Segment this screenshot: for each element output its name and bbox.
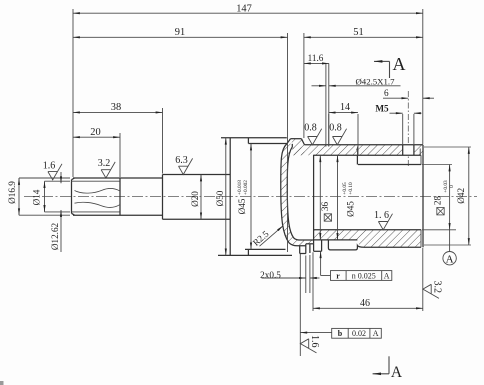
dimension dia36 boxed (320, 155, 331, 240)
svg-text:0.8: 0.8 (329, 123, 342, 134)
worm crest top line (73, 177, 163, 179)
tube bore 28 bottom line (314, 229, 421, 231)
roughness 1.6 rotated datum face (300, 335, 320, 353)
dimension 14 (329, 102, 358, 155)
worm root top line (72, 180, 121, 182)
extension line datum face below (299, 254, 301, 356)
worm shaft left end face (72, 178, 75, 215)
dimension 51 (304, 27, 423, 38)
flange rim top hatched (287, 139, 304, 156)
dimension 20 (73, 127, 120, 138)
dia50 disk top line with extension (221, 137, 287, 139)
flange bell wall hatched band (281, 144, 314, 246)
svg-text:Ø12.62: Ø12.62 (50, 222, 60, 250)
svg-text:3.2: 3.2 (98, 158, 111, 169)
svg-text:Ø20: Ø20 (190, 191, 200, 207)
boss tab bottom (328, 240, 364, 250)
dia50 disk left face (229, 138, 231, 256)
svg-text:36: 36 (320, 202, 330, 212)
svg-text:11.6: 11.6 (308, 53, 324, 63)
roughness 0.8 second (329, 123, 346, 145)
dimension dia45 bore with tolerance (338, 155, 356, 240)
section arrow A top (374, 54, 406, 78)
svg-text:A: A (384, 271, 390, 280)
roughness 1.6 bore (374, 210, 393, 230)
tube bore 28 top line (358, 164, 421, 166)
tube bore 45 top line (314, 154, 421, 156)
dimension dia16.9 (7, 178, 70, 215)
extension line bore opening for dim 46 (312, 252, 314, 311)
part right face (422, 145, 424, 248)
svg-text:0: 0 (449, 185, 455, 188)
centerline M5 hole (407, 91, 409, 168)
extension line groove left wall (325, 63, 327, 146)
dimension 46 (313, 298, 423, 309)
svg-text:6: 6 (384, 88, 389, 98)
dia50 disk right face bottom (247, 249, 249, 255)
svg-text:n 0.025: n 0.025 (352, 271, 376, 280)
extension line worm end for dim 20 (119, 133, 121, 177)
runout tolerance frame (321, 251, 392, 280)
svg-text:38: 38 (111, 102, 121, 113)
label thread 42.5x1.7 (312, 76, 401, 86)
dia20 section bottom line (163, 218, 231, 220)
dimension dia12.62 (50, 172, 61, 252)
worm section end boundary (119, 178, 121, 215)
dimension 2x0.5 (260, 255, 319, 293)
dimension dia28 boxed with tolerance (422, 165, 456, 230)
dimension M5 (375, 104, 421, 144)
worm thread break curve upper (75, 188, 120, 193)
tube OD top line (304, 144, 423, 146)
worm crest bottom line (73, 214, 163, 216)
tube bottom wall hatched (314, 230, 421, 248)
radius R2.5 leader (251, 226, 283, 248)
svg-text:Ø14: Ø14 (32, 189, 42, 205)
groove 2x0.5 at flange base (306, 244, 310, 254)
svg-text:Ø45: Ø45 (237, 198, 247, 214)
M5 hole white cut (403, 144, 414, 156)
svg-text:A: A (446, 254, 454, 266)
svg-text:0.8: 0.8 (304, 123, 317, 134)
svg-text:b: b (338, 329, 343, 338)
tube OD bottom line (364, 246, 421, 248)
svg-text:r: r (336, 271, 340, 280)
section arrow A bottom (373, 356, 403, 381)
svg-text:14: 14 (340, 102, 350, 113)
svg-text:1. 6: 1. 6 (374, 210, 389, 221)
dimension 38 (73, 102, 163, 113)
svg-text:Ø45: Ø45 (346, 201, 356, 217)
extension line flange curve for dim 91 (287, 33, 289, 252)
dimension dia42 (424, 147, 471, 245)
svg-text:51: 51 (353, 27, 363, 38)
counterbore 45 bottom line (314, 239, 358, 241)
svg-text:0.02: 0.02 (352, 329, 366, 338)
svg-text:20: 20 (90, 127, 100, 138)
svg-text:Ø16.9: Ø16.9 (7, 181, 17, 204)
shoulder step to dia20 (162, 175, 164, 220)
dia50 disk bottom line with extension (218, 254, 292, 256)
dia45 bearing seat bottom line (245, 248, 286, 250)
svg-text:46: 46 (360, 298, 370, 309)
svg-text:91: 91 (175, 27, 185, 38)
bore end inner corner (419, 149, 422, 248)
extension line groove right wall (328, 63, 330, 146)
svg-text:M5: M5 (375, 104, 389, 114)
svg-text:A: A (373, 329, 379, 338)
page corner smudge (0, 381, 4, 385)
parallelism tolerance frame (300, 328, 381, 338)
groove 42.5 white cut (326, 144, 329, 147)
relief neck bottom profile (306, 240, 322, 251)
extension line left shaft end (72, 9, 74, 177)
svg-text:Ø42.5X1.7: Ø42.5X1.7 (355, 76, 395, 86)
svg-text:6.3: 6.3 (175, 155, 188, 166)
dia45 bearing seat top line (248, 143, 287, 145)
roughness 6.3 dia20 (175, 155, 192, 175)
svg-text:Ø50: Ø50 (215, 190, 225, 206)
svg-text:1.6: 1.6 (309, 335, 320, 348)
extension line right face for dim 147 (422, 9, 424, 144)
svg-text:A: A (391, 364, 403, 381)
extension line right face lower for dim 46 (422, 248, 424, 311)
svg-text:28: 28 (433, 196, 443, 206)
dimension dia20 vertical (190, 175, 201, 220)
svg-text:A: A (393, 54, 406, 74)
roughness 3.2 rotated right face (423, 280, 443, 298)
dimension 147 (73, 4, 423, 15)
dia20 section top line (163, 174, 231, 176)
dimension 11.6 (304, 53, 329, 63)
small arrow at step top (356, 146, 358, 155)
roughness 3.2 worm (98, 158, 115, 178)
dia50 disk right face top (247, 138, 249, 144)
flange rim bottom lip (300, 246, 306, 254)
bore step top (356, 155, 358, 164)
svg-text:3.2: 3.2 (432, 280, 443, 293)
svg-text:147: 147 (236, 4, 252, 15)
tube top wall hatched (292, 145, 423, 156)
svg-text:+0.10: +0.10 (348, 182, 354, 195)
svg-text:+0.002: +0.002 (243, 180, 249, 195)
svg-text:1.6: 1.6 (43, 160, 56, 171)
centerline main axis (24, 195, 477, 197)
svg-text:Ø42: Ø42 (456, 187, 466, 203)
dimension 6 (383, 88, 434, 98)
dimension dia14 (32, 181, 71, 212)
datum circle A (443, 230, 456, 266)
worm root bottom line (72, 211, 121, 213)
tube front face (313, 155, 315, 244)
dimension dia50 (215, 138, 226, 256)
extension line shoulder for dim 38 (162, 108, 164, 174)
worm thread break curve lower (75, 202, 120, 207)
dimension dia45 seat with tolerance (237, 144, 251, 250)
roughness 1.6 left shaft (43, 160, 62, 180)
extension line flange face for dim 51 (303, 33, 305, 138)
dimension 91 (73, 27, 288, 38)
roughness 0.8 first (304, 123, 321, 145)
